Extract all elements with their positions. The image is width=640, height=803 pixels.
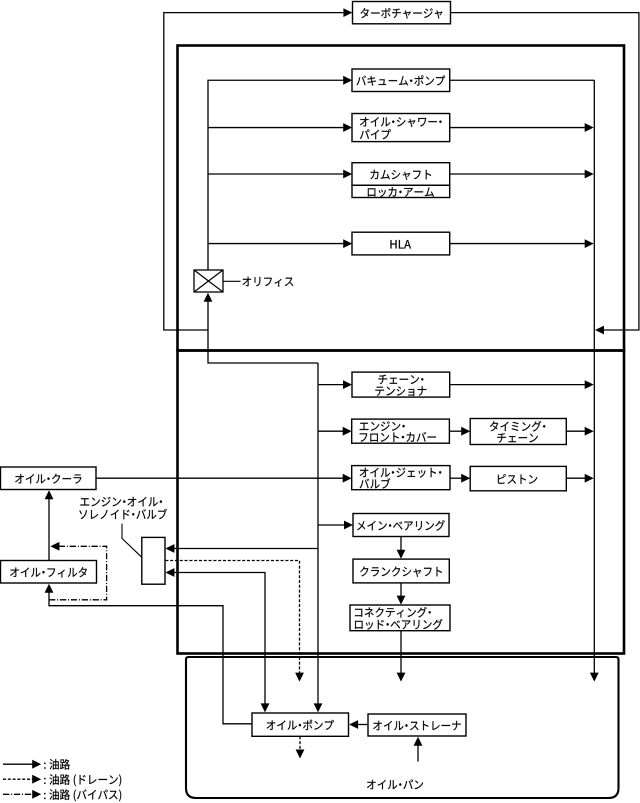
wire piston drain: [566, 477, 585, 479]
wire vacuum pump outlet to right drain bus: [450, 79, 595, 81]
wire feed to oil shower pipe: [208, 127, 344, 129]
box oil shower pipe: [352, 114, 450, 142]
wire feed to camshaft: [208, 173, 344, 175]
legend dashed arrow: oil path (drain): [3, 778, 33, 780]
wire feed to chain tensioner: [318, 384, 343, 386]
wire feed to HLA: [208, 243, 344, 245]
legend dash-dot arrow: oil path (bypass): [3, 793, 33, 795]
wire oil filter to oil cooler: [48, 499, 50, 561]
box vacuum pump: [352, 69, 450, 92]
wire turbocharger supply (gallery tap to turbo): [164, 13, 344, 330]
wire oil pump outlet to oil filter: [49, 592, 252, 724]
wire timing chain drain: [566, 430, 585, 432]
wire drain from solenoid valve to oil pan (dashed): [165, 561, 299, 674]
orifice symbol: [194, 270, 223, 292]
wire oil jet valve to piston: [450, 477, 462, 479]
wire head gallery riser lower part (main gallery to orifice): [208, 301, 318, 363]
wire HLA drain: [450, 243, 586, 245]
wire turbocharger return (turbo to right drain bus): [451, 13, 639, 330]
orifice label leader line: [223, 280, 241, 282]
engine oil solenoid valve body: [142, 537, 165, 584]
box oil jet valve: [352, 466, 450, 490]
engine lower block (cylinder block) outline: [178, 351, 625, 654]
oil pan label: [367, 780, 423, 790]
box oil filter: [1, 561, 97, 584]
engine upper block (cylinder head) outline: [178, 46, 625, 351]
wire gallery feed to engine oil solenoid valve upper port: [174, 548, 318, 550]
box engine front cover: [352, 419, 450, 443]
wire head gallery riser upper part (orifice to vacuum pump feed): [208, 80, 344, 270]
wire chain tensioner drain: [450, 384, 586, 386]
wire oil cooler outlet to main gallery and oil jet valve: [96, 477, 343, 479]
wire connecting rod bearing drain to oil pan: [400, 631, 402, 673]
oil pan outline: [186, 657, 619, 798]
engine oil solenoid valve label pointer: [122, 524, 142, 558]
wire crankshaft to connecting rod bearing: [400, 583, 402, 596]
legend solid arrow: oil path: [3, 763, 33, 765]
wire oil strainer to oil pump: [358, 724, 368, 726]
wire main bearing to crankshaft: [400, 537, 402, 551]
wire main gallery vertical bus down to oil pump: [317, 363, 319, 704]
wire oil filter bypass (dash-dot): [49, 546, 107, 600]
wire engine front cover to timing chain: [449, 430, 461, 432]
wire oil pump relief drain to pan (dashed): [299, 736, 301, 750]
wire right drain bus down to oil pan: [593, 80, 595, 673]
box oil pump: [252, 713, 349, 736]
engine oil solenoid valve label: [80, 497, 162, 507]
box chain tensioner: [352, 372, 450, 397]
wire engine oil solenoid valve control line to oil pump: [174, 573, 265, 705]
box crankshaft: [353, 559, 449, 583]
box oil cooler: [1, 467, 97, 490]
box HLA: [352, 232, 450, 255]
box oil strainer: [368, 714, 466, 736]
wire oil shower pipe drain: [450, 127, 586, 129]
box rocker arm: [352, 185, 450, 197]
wire feed to engine front cover: [318, 430, 343, 432]
box connecting rod bearing: [350, 605, 450, 631]
box turbocharger: [353, 2, 451, 24]
wire camshaft drain: [450, 173, 586, 175]
box timing chain: [470, 419, 566, 445]
box camshaft: [352, 163, 450, 186]
wire oil pan suction to oil strainer: [417, 745, 419, 761]
box piston: [470, 466, 566, 490]
wire feed to main bearing: [318, 524, 344, 526]
box main bearing: [353, 514, 449, 537]
orifice label: [243, 277, 294, 287]
